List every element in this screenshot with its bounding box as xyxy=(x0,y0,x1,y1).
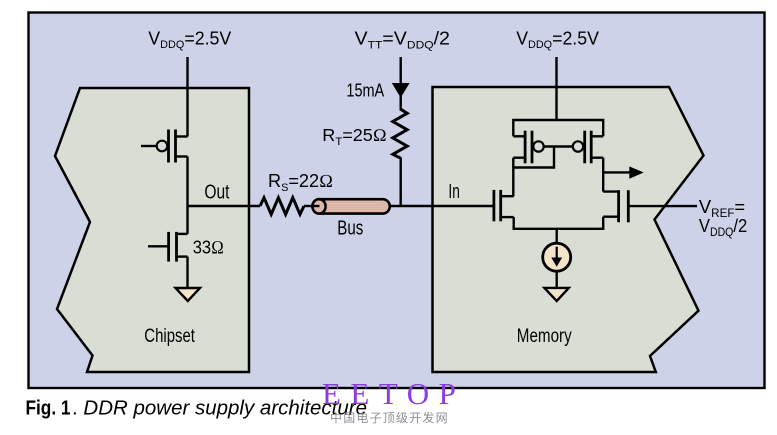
wire Vref output xyxy=(630,205,698,207)
memory block xyxy=(433,87,704,372)
svg-text:Memory: Memory xyxy=(517,326,572,347)
transistor Q4 PMOS (mirror right) xyxy=(573,131,603,164)
ground (chipset) xyxy=(176,288,201,301)
wire Out node to Rs xyxy=(188,205,261,207)
wire mirror gates xyxy=(544,145,573,147)
wire VTT supply down to Rt xyxy=(400,57,402,111)
transistor Q1 PMOS (chipset pull-up) xyxy=(141,130,188,163)
wire NMOS source to ground xyxy=(186,257,188,288)
wire diff pair left drain xyxy=(512,196,514,217)
transistor Q5 NMOS (diff pair left) xyxy=(494,190,514,221)
wire PMOS drain to Out node xyxy=(186,157,188,234)
wire mirror diode connection xyxy=(513,147,554,168)
svg-text:RT=25Ω: RT=25Ω xyxy=(322,125,386,148)
transistor Q3 PMOS (mirror left) xyxy=(513,131,543,164)
svg-text:Chipset: Chipset xyxy=(144,325,195,347)
svg-text:RS=22Ω: RS=22Ω xyxy=(268,170,333,194)
wire right mirror drain down to output node xyxy=(602,158,604,192)
wire current source to ground xyxy=(556,271,558,288)
resistor Rt xyxy=(393,109,407,158)
current source I1 xyxy=(543,243,571,271)
wire VDDQ supply to chipset PMOS xyxy=(186,57,188,137)
wire mirror top rail xyxy=(513,120,603,136)
chipset block xyxy=(55,88,249,372)
svg-text:33Ω: 33Ω xyxy=(193,237,224,259)
bus transmission line xyxy=(312,199,389,213)
ground (memory) xyxy=(544,288,568,301)
wire Rs to bus xyxy=(304,205,320,207)
transistor Q6 NMOS (diff pair right) xyxy=(603,190,628,222)
transistor Q2 NMOS (chipset pull-down, 33ohm) xyxy=(148,232,188,262)
svg-text:中国电子顶级开发网: 中国电子顶级开发网 xyxy=(330,410,449,425)
resistor Rs xyxy=(260,198,304,215)
wire diff pair tail rail xyxy=(514,217,604,229)
wire bus to memory In xyxy=(390,205,493,207)
svg-text:15mA: 15mA xyxy=(346,79,384,100)
wire tail rail to current source xyxy=(556,229,558,244)
svg-text:EETOP: EETOP xyxy=(322,376,465,411)
output arrow (memory) xyxy=(603,166,644,178)
wire Rt to bus node xyxy=(400,158,402,208)
wire VDDQ supply to memory mirror xyxy=(555,57,557,120)
current arrow 15mA xyxy=(392,83,410,98)
svg-text:In: In xyxy=(448,181,459,203)
wire left mirror drain down to diff pair xyxy=(512,158,514,197)
svg-text:Out: Out xyxy=(204,181,229,203)
label VREF=VDDQ/2 xyxy=(699,197,747,239)
svg-text:Bus: Bus xyxy=(337,217,363,239)
svg-text:Fig. 1: Fig. 1 xyxy=(26,398,71,420)
